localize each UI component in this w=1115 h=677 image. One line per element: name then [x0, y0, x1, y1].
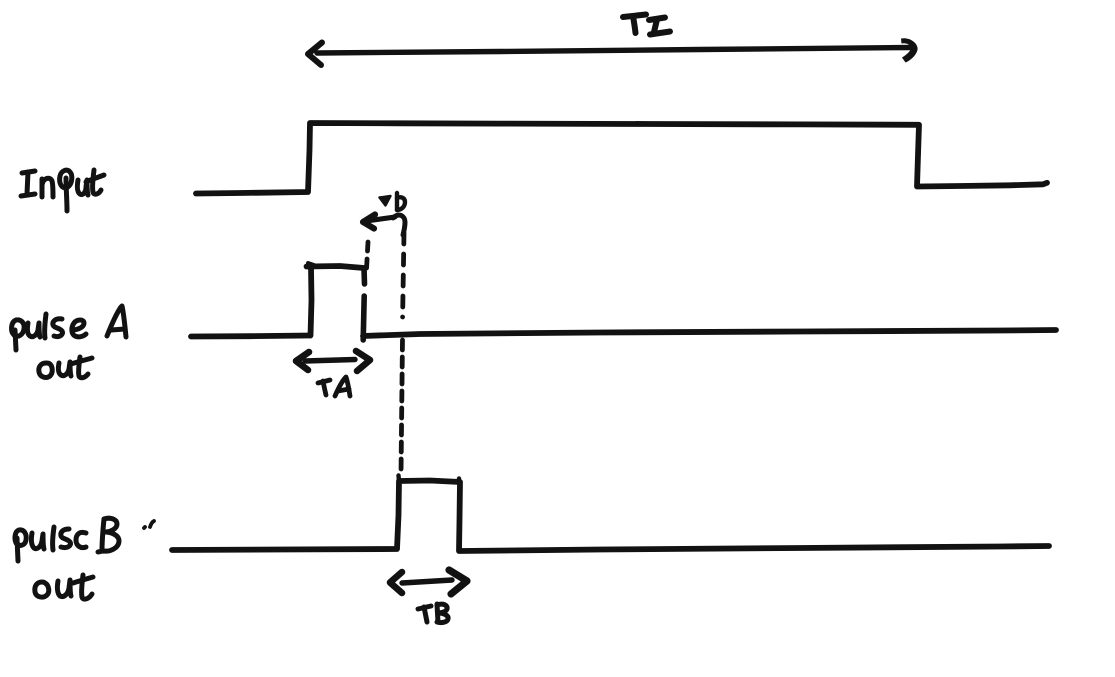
pulse A top — [307, 266, 365, 268]
label tA — [318, 377, 350, 396]
label Input — [21, 170, 104, 211]
label out (pulse B) — [35, 575, 93, 599]
stray ink marks right of pulse B — [144, 521, 154, 528]
dimension arrow TI (period of input pulse) — [308, 38, 918, 65]
label TI — [623, 15, 670, 35]
pulse A baseline right — [363, 330, 1056, 336]
dimension arrow tA (width of pulse A) — [296, 351, 370, 371]
label pulse B — [15, 518, 119, 561]
dimension arrow tB (width of pulse B) — [390, 570, 467, 594]
pulse A rising edge — [311, 268, 312, 336]
label tB — [418, 604, 448, 623]
pulse B waveform — [396, 476, 401, 482]
long dashed vertical line from tb arrow to pulse B leading edge — [403, 233, 404, 317]
pulse A falling edge (pen skip gap) — [361, 268, 367, 284]
pulse A waveform: baseline left — [191, 336, 310, 337]
overshoot tick at pulse A top-left corner — [308, 263, 314, 265]
label pulse A — [12, 306, 126, 350]
Input waveform — [196, 123, 1047, 194]
delay label tb (small) — [380, 193, 406, 210]
label out (pulse A) — [39, 357, 92, 378]
small dimension arrow for tb — [363, 215, 405, 236]
short dashed vertical at pulse A trailing edge — [367, 242, 369, 269]
